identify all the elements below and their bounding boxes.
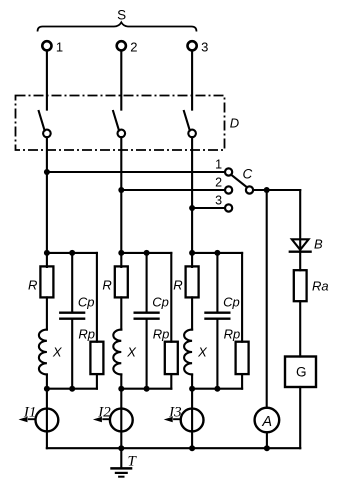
svg-text:Rp: Rp (224, 327, 241, 342)
svg-text:C: C (243, 166, 253, 181)
svg-text:Cp: Cp (78, 294, 95, 309)
svg-text:A: A (261, 414, 272, 430)
svg-text:X: X (52, 344, 63, 359)
svg-text:Cp: Cp (152, 294, 169, 309)
svg-text:Ra: Ra (312, 279, 329, 294)
svg-text:1: 1 (215, 158, 222, 172)
svg-text:X: X (197, 344, 208, 359)
svg-text:1: 1 (56, 39, 63, 54)
svg-text:T: T (128, 454, 138, 470)
svg-text:I3: I3 (168, 404, 182, 420)
svg-text:Rp: Rp (153, 327, 170, 342)
svg-text:Rp: Rp (78, 327, 95, 342)
svg-text:I2: I2 (97, 404, 111, 420)
svg-text:R: R (102, 277, 111, 292)
svg-text:R: R (173, 277, 182, 292)
svg-text:3: 3 (201, 39, 208, 54)
svg-text:Cp: Cp (223, 294, 240, 309)
svg-text:B: B (314, 236, 323, 251)
svg-text:I1: I1 (23, 404, 37, 420)
svg-text:3: 3 (215, 194, 222, 208)
svg-text:2: 2 (215, 176, 222, 190)
svg-text:D: D (230, 116, 239, 131)
svg-text:S: S (117, 8, 126, 23)
svg-text:X: X (126, 344, 137, 359)
svg-text:2: 2 (130, 39, 137, 54)
svg-text:R: R (28, 277, 37, 292)
svg-text:G: G (296, 365, 307, 380)
